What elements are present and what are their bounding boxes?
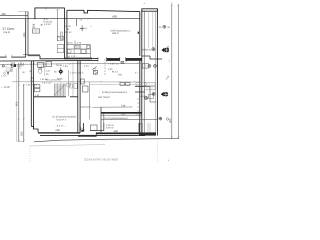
svg-text:35 46: 35 46 (56, 64, 62, 67)
svg-text:d 150: d 150 (141, 95, 147, 98)
svg-text:402: 402 (1, 12, 6, 16)
svg-text:1,1 75: 1,1 75 (75, 42, 82, 45)
svg-text:285: 285 (169, 118, 172, 123)
svg-text:1,52 90: 1,52 90 (40, 78, 48, 81)
svg-text:2x1 1,20: 2x1 1,20 (67, 55, 76, 58)
svg-text:90 1.20 2x1 90: 90 1.20 2x1 90 (46, 79, 61, 82)
svg-text:...0,1 m² ...: ...0,1 m² ... (55, 124, 66, 127)
svg-text:308 3²: 308 3² (112, 32, 119, 35)
svg-text:DZIAŁKOWY BUDYNEK: DZIAŁKOWY BUDYNEK (84, 158, 118, 162)
svg-text:90 75: 90 75 (67, 42, 73, 45)
svg-text:2,0 x 1,0: 2,0 x 1,0 (42, 81, 51, 84)
svg-text:600: 600 (15, 101, 18, 106)
svg-text:z: z (168, 159, 169, 162)
svg-text:0,79 m²: 0,79 m² (106, 126, 114, 129)
svg-text:489 708,87: 489 708,87 (98, 96, 111, 99)
svg-text:2.05: 2.05 (108, 68, 113, 71)
svg-text:1.90: 1.90 (63, 65, 68, 68)
svg-text:4.9 m²: 4.9 m² (44, 23, 51, 26)
svg-text:1.0 m²: 1.0 m² (65, 31, 72, 34)
svg-text:300: 300 (20, 131, 23, 136)
svg-text:1,1 m: 1,1 m (1, 74, 6, 77)
svg-text:2.74: 2.74 (84, 65, 89, 68)
svg-text:408: 408 (112, 15, 117, 19)
svg-text:548: 548 (121, 113, 126, 116)
svg-text:87,88 (przechowalnia) 1: 87,88 (przechowalnia) 1 (102, 91, 128, 94)
svg-text:25/1: 25/1 (118, 73, 123, 76)
svg-text:14,41 (przechowalnia) 1: 14,41 (przechowalnia) 1 (104, 117, 129, 120)
svg-text:3.05: 3.05 (11, 62, 16, 65)
svg-text:z: z (169, 61, 170, 64)
svg-text:498: 498 (114, 130, 119, 133)
svg-text:(2a 3): (2a 3) (3, 31, 10, 34)
svg-text:← 6,13: ← 6,13 (0, 85, 9, 89)
svg-text:25/202 (k): 25/202 (k) (141, 49, 152, 52)
svg-text:1,52 95 2,0: 1,52 95 2,0 (26, 84, 38, 87)
svg-text:4.90: 4.90 (41, 65, 46, 68)
svg-text:7,88: 7,88 (121, 104, 126, 107)
svg-text:698: 698 (56, 129, 61, 132)
svg-text:300: 300 (23, 32, 26, 37)
svg-text:70,6 m² 4: 70,6 m² 4 (56, 119, 67, 122)
svg-text:⊞ 1.3: ⊞ 1.3 (112, 71, 118, 74)
svg-text:2.05: 2.05 (110, 62, 115, 65)
svg-text:( |: ( | (85, 27, 87, 30)
svg-text:1.10 4.10 1.5: 1.10 4.10 1.5 (70, 72, 84, 75)
